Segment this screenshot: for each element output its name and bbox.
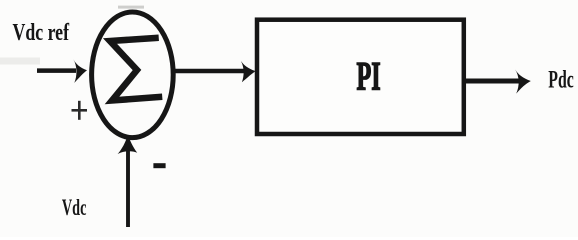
sigma symbol inside summing junction [110, 38, 159, 101]
svg-text:Vdc: Vdc [62, 195, 87, 220]
wire: summing junction to PI block [175, 69, 246, 74]
arrowhead into summing junction [73, 59, 87, 83]
svg-text:Pdc: Pdc [548, 66, 574, 93]
arrowhead output [515, 70, 531, 94]
svg-text:Vdc ref: Vdc ref [13, 19, 70, 46]
wire: PI output [464, 79, 519, 84]
scan smudge above summer [118, 6, 144, 9]
arrowhead into bottom of summing junction [118, 135, 138, 154]
svg-text:PI: PI [357, 54, 381, 99]
wire: input arrow shaft to summing junction [37, 68, 76, 73]
scan streak left [0, 58, 40, 65]
summing junction circle U1 [92, 12, 174, 138]
PI block [257, 20, 464, 134]
arrowhead into PI block [241, 61, 256, 82]
plus sign (+ input) [72, 101, 88, 120]
wire: feedback vertical arrow shaft [126, 148, 130, 227]
minus sign (- input) [153, 163, 165, 168]
